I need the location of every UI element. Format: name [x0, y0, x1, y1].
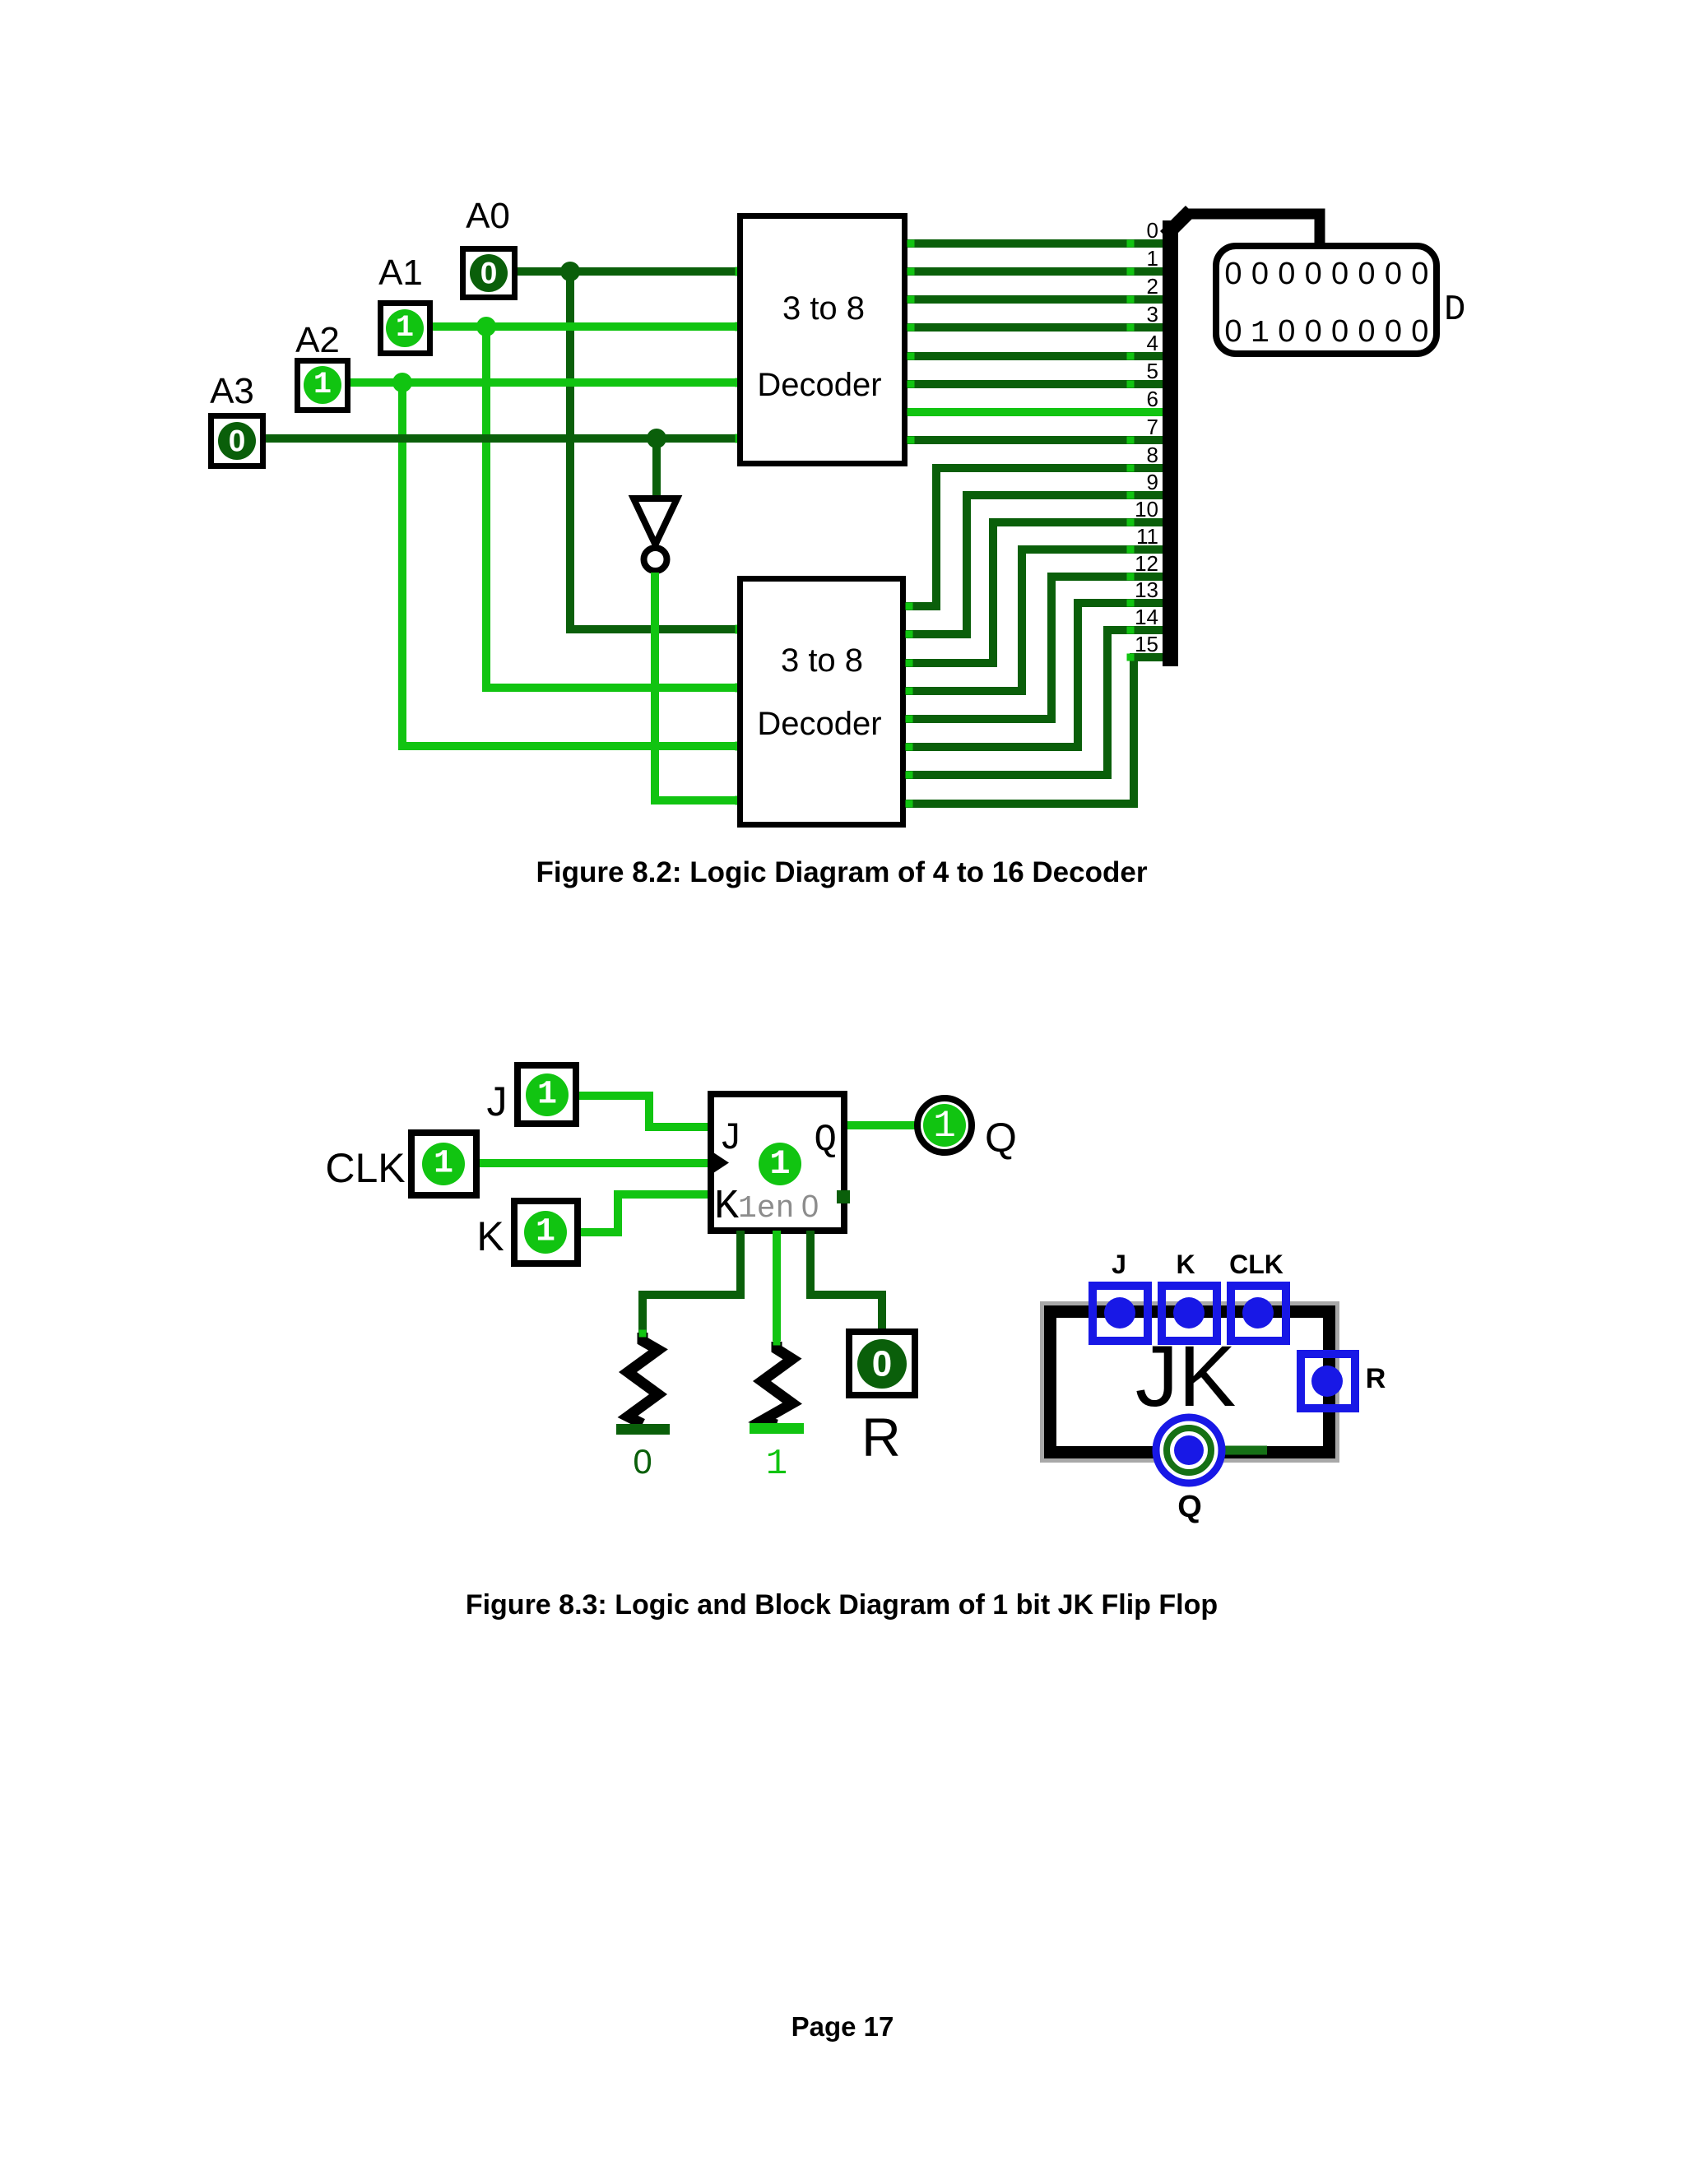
svg-text:0: 0: [1358, 314, 1375, 349]
svg-text:1: 1: [313, 368, 332, 402]
svg-text:0: 0: [1251, 257, 1269, 291]
svg-text:0: 0: [1278, 314, 1295, 349]
svg-text:1en: 1en: [738, 1191, 794, 1226]
wire A0 branch to decoder U2: [570, 271, 737, 629]
wire decoder U2 output 6 to splitter (bit 14): [906, 630, 1163, 775]
wire A0 to decoder U1: [518, 267, 737, 276]
svg-text:0: 0: [480, 257, 498, 290]
svg-text:Figure 8.2: Logic Diagram of 4: Figure 8.2: Logic Diagram of 4 to 16 Dec…: [536, 856, 1148, 888]
wire inverter output to decoder U2 enable: [655, 573, 737, 800]
svg-text:0: 0: [1305, 257, 1322, 291]
junction node A3: [647, 429, 666, 448]
svg-text:CLK: CLK: [325, 1145, 405, 1191]
svg-text:0: 0: [1411, 257, 1428, 291]
wire A1 branch to decoder U2: [486, 327, 737, 688]
svg-text:6: 6: [1147, 387, 1158, 411]
block output Q rings: [1156, 1417, 1222, 1483]
svg-text:0: 0: [1385, 257, 1402, 291]
svg-text:R: R: [1366, 1363, 1386, 1394]
svg-text:1: 1: [536, 1214, 555, 1251]
svg-text:J: J: [719, 1117, 742, 1160]
wire decoder U2 output 1 to splitter (bit 9): [906, 495, 1163, 634]
wire A2 to decoder U1: [350, 378, 737, 387]
wire decoder U1 output 5 to splitter: [907, 380, 1163, 388]
svg-text:0: 0: [1385, 314, 1402, 349]
decoder U2 (3 to 8): [740, 579, 903, 825]
svg-text:K: K: [1176, 1250, 1195, 1279]
output pin R: [849, 1332, 915, 1395]
svg-text:11: 11: [1136, 524, 1158, 549]
wire A3 to inverter: [652, 438, 661, 496]
svg-text:Decoder: Decoder: [757, 367, 881, 403]
input pin A2: [298, 361, 348, 410]
wire A3 to decoder U1 enable: [266, 434, 737, 443]
input pin A1: [381, 304, 430, 354]
svg-text:Q: Q: [814, 1119, 837, 1162]
inverter NOT1: [634, 498, 677, 571]
svg-text:K: K: [714, 1184, 739, 1231]
wire A1 to decoder U1: [433, 322, 737, 331]
svg-text:K: K: [476, 1213, 504, 1259]
wire flip-flop Q to output probe: [847, 1121, 918, 1129]
svg-text:1: 1: [1251, 316, 1270, 351]
svg-text:Decoder: Decoder: [757, 706, 881, 742]
wire A2 branch to decoder U2: [402, 383, 737, 746]
wire decoder U2 output 0 to splitter (bit 8): [906, 468, 1163, 606]
svg-text:5: 5: [1147, 359, 1158, 383]
svg-text:8: 8: [1147, 443, 1158, 467]
svg-text:15: 15: [1135, 632, 1158, 656]
svg-text:7: 7: [1147, 415, 1158, 439]
wire decoder U2 output 7 to splitter (bit 15): [906, 657, 1163, 804]
wire flip-flop pin to resistor R1: [643, 1231, 740, 1333]
wire decoder U1 output 3 to splitter: [907, 323, 1163, 332]
wire flip-flop pin to resistor R2: [773, 1231, 781, 1341]
JK flip-flop block frame: [1051, 1312, 1330, 1453]
svg-text:Q: Q: [1177, 1490, 1202, 1524]
svg-text:A1: A1: [378, 253, 423, 293]
wire J to flip-flop: [579, 1096, 708, 1127]
input pin K: [514, 1201, 578, 1264]
output probe Q: [917, 1098, 972, 1152]
svg-text:13: 13: [1135, 577, 1158, 602]
wire splitter to probe D: [1185, 214, 1320, 246]
svg-text:1: 1: [769, 1144, 790, 1184]
probe D display: [1216, 246, 1437, 354]
svg-text:0: 0: [1331, 257, 1348, 291]
wire decoder U1 output 2 to splitter: [907, 295, 1163, 304]
wire Q output stub: [1189, 1446, 1267, 1455]
wire decoder U1 output 0 to splitter: [907, 239, 1163, 248]
svg-text:Page 17: Page 17: [791, 2011, 894, 2042]
svg-text:A3: A3: [210, 371, 254, 411]
block input R: [1301, 1354, 1355, 1408]
wire decoder U2 output 4 to splitter (bit 12): [906, 577, 1163, 719]
svg-text:1: 1: [933, 1105, 956, 1148]
svg-text:0: 0: [1411, 314, 1428, 349]
JK flip-flop block frame shadow: [1046, 1307, 1335, 1458]
svg-text:Q: Q: [985, 1115, 1017, 1161]
input pin CLK: [411, 1133, 476, 1195]
wire flip-flop pin to output pin R: [810, 1231, 882, 1331]
svg-text:4: 4: [1147, 331, 1158, 355]
block input K: [1162, 1286, 1217, 1341]
svg-text:3 to 8: 3 to 8: [782, 290, 865, 327]
svg-text:0: 0: [229, 424, 246, 458]
resistor R1: [616, 1330, 670, 1482]
resistor R2: [750, 1338, 804, 1486]
wire decoder U2 output 3 to splitter (bit 11): [906, 549, 1163, 691]
svg-text:1: 1: [434, 1146, 453, 1183]
svg-text:0: 0: [872, 1344, 892, 1384]
svg-text:0: 0: [1224, 314, 1242, 349]
input pin J: [518, 1065, 576, 1124]
svg-text:1: 1: [766, 1444, 787, 1485]
block input CLK: [1231, 1286, 1286, 1341]
svg-text:1: 1: [396, 311, 414, 345]
wire K to flip-flop: [581, 1194, 708, 1232]
junction node A0: [560, 262, 580, 281]
svg-text:0: 0: [633, 1442, 652, 1481]
flip-flop U3 (JK): [711, 1094, 850, 1231]
svg-text:J: J: [487, 1078, 508, 1124]
svg-text:A2: A2: [295, 320, 340, 360]
svg-text:10: 10: [1135, 497, 1158, 522]
wire CLK to flip-flop: [480, 1159, 708, 1167]
svg-text:0: 0: [801, 1189, 819, 1224]
svg-text:0: 0: [1358, 257, 1375, 291]
svg-text:14: 14: [1135, 605, 1158, 629]
svg-text:3 to 8: 3 to 8: [781, 642, 863, 679]
input pin A3: [211, 416, 263, 466]
svg-text:12: 12: [1135, 551, 1158, 576]
svg-text:3: 3: [1147, 302, 1158, 327]
svg-text:R: R: [861, 1407, 901, 1468]
input pin A0: [463, 249, 515, 298]
wire decoder U1 output 1 to splitter: [907, 267, 1163, 276]
splitter bus spine: [1163, 211, 1191, 666]
svg-text:0: 0: [1278, 257, 1295, 291]
svg-text:A0: A0: [466, 196, 510, 236]
svg-text:Figure 8.3: Logic and Block Di: Figure 8.3: Logic and Block Diagram of 1…: [466, 1589, 1218, 1621]
svg-text:9: 9: [1147, 470, 1158, 494]
wire decoder U1 output 6 to splitter: [907, 408, 1163, 416]
junction node A1: [476, 317, 496, 336]
block input J: [1093, 1286, 1148, 1341]
svg-text:CLK: CLK: [1229, 1250, 1283, 1279]
svg-text:0: 0: [1147, 218, 1158, 243]
svg-text:1: 1: [1147, 246, 1158, 271]
svg-text:0: 0: [1224, 257, 1242, 291]
junction node A2: [392, 373, 412, 392]
svg-text:0: 0: [1331, 314, 1348, 349]
svg-text:0: 0: [1305, 314, 1322, 349]
svg-text:2: 2: [1147, 274, 1158, 299]
wire decoder U1 output 4 to splitter: [907, 352, 1163, 360]
decoder U1 (3 to 8): [740, 216, 905, 464]
wire decoder U1 output 7 to splitter: [907, 436, 1163, 444]
svg-text:1: 1: [537, 1077, 557, 1114]
svg-text:J: J: [1112, 1250, 1126, 1279]
svg-text:D: D: [1444, 290, 1465, 331]
wire decoder U2 output 5 to splitter (bit 13): [906, 603, 1163, 747]
wire decoder U2 output 2 to splitter (bit 10): [906, 522, 1163, 663]
